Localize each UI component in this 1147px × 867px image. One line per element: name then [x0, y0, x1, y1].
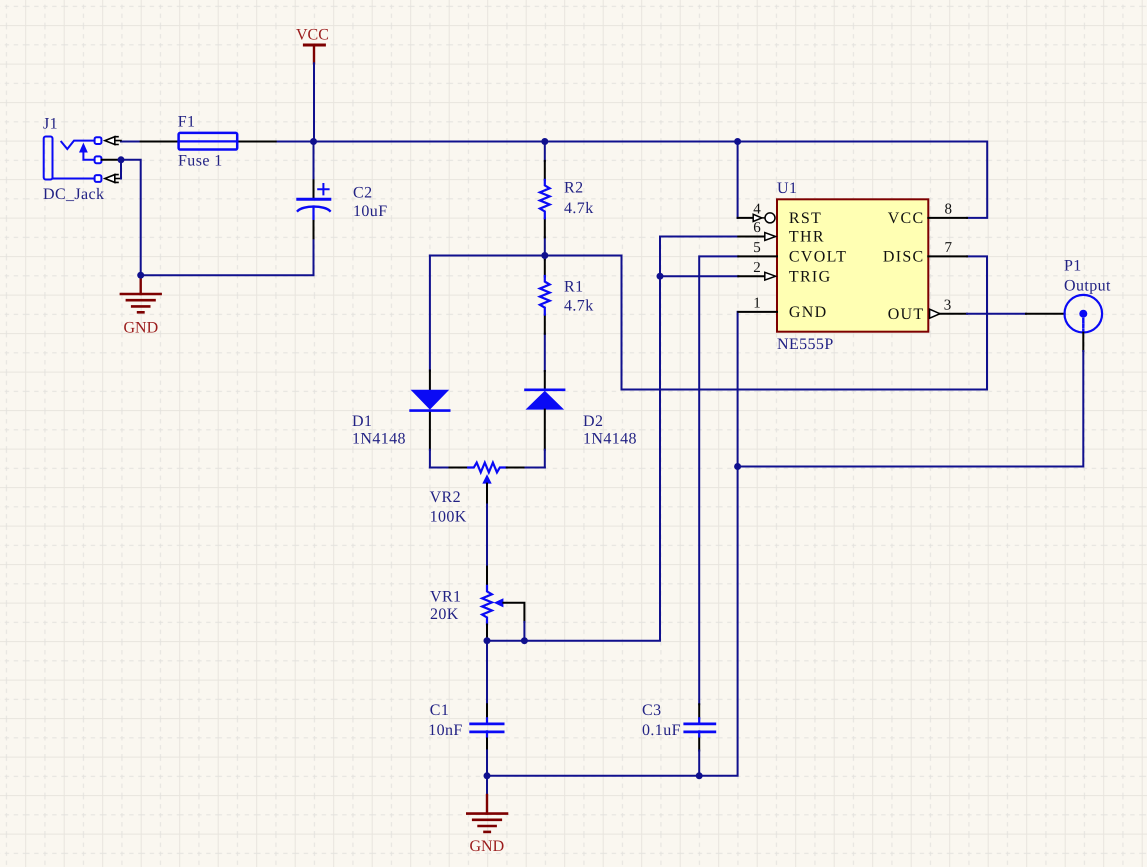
wire CVOLT branch to C3 [699, 256, 738, 704]
svg-text:F1: F1 [178, 114, 196, 131]
svg-text:10uF: 10uF [353, 203, 388, 220]
svg-text:3: 3 [944, 297, 952, 313]
resistor R2 4.7k [540, 142, 550, 256]
svg-text:Output: Output [1064, 278, 1111, 295]
svg-text:GND: GND [124, 320, 159, 337]
wire bottom GND rail [487, 312, 738, 776]
svg-text:6: 6 [753, 220, 761, 236]
svg-text:4: 4 [753, 202, 761, 218]
wire top rail VCC net [121, 142, 987, 218]
connector J1 DC_Jack [44, 137, 121, 183]
pin 3 OUT [930, 309, 967, 318]
svg-text:C3: C3 [642, 702, 661, 719]
svg-text:P1: P1 [1064, 258, 1082, 275]
svg-text:VCC: VCC [888, 210, 925, 227]
svg-text:1: 1 [753, 296, 761, 312]
fuse F1 [141, 133, 276, 150]
svg-text:D1: D1 [352, 413, 372, 430]
svg-text:J1: J1 [43, 116, 58, 133]
svg-text:DC_Jack: DC_Jack [43, 186, 104, 203]
wire OUT to P1 [967, 313, 1026, 315]
svg-text:4.7k: 4.7k [564, 200, 594, 217]
svg-text:RST: RST [789, 210, 822, 227]
wire P1 return to GND column [738, 351, 1084, 467]
capacitor C3 0.1uF [685, 704, 715, 776]
svg-text:DISC: DISC [883, 249, 925, 266]
pin 4 RST [753, 213, 775, 223]
svg-text:VR2: VR2 [430, 489, 461, 506]
power symbol VCC [304, 45, 324, 142]
svg-text:VCC: VCC [296, 27, 329, 44]
svg-text:OUT: OUT [888, 306, 925, 323]
wire RST to VCC rail [737, 142, 739, 218]
svg-text:0.1uF: 0.1uF [642, 722, 681, 739]
svg-text:1N4148: 1N4148 [583, 431, 637, 448]
svg-text:VR1: VR1 [430, 589, 461, 606]
svg-text:C2: C2 [353, 185, 372, 202]
svg-text:C1: C1 [430, 702, 449, 719]
wire J1 pin2/pin3 to GND rail [121, 160, 141, 275]
svg-text:5: 5 [753, 240, 761, 256]
svg-text:100K: 100K [430, 508, 467, 525]
svg-text:GND: GND [789, 304, 828, 321]
svg-text:R2: R2 [564, 180, 583, 197]
svg-text:R1: R1 [564, 278, 583, 295]
svg-text:GND: GND [470, 838, 505, 855]
svg-text:U1: U1 [777, 180, 797, 197]
svg-text:10nF: 10nF [428, 722, 463, 739]
pin 8 VCC [928, 217, 967, 219]
resistor R1 4.7k [540, 256, 550, 372]
pin 2 TRIG [738, 272, 775, 280]
wire GND rail C2 to J1 [141, 238, 314, 275]
pin 1 GND [738, 311, 777, 313]
potentiometer VR2 100K [430, 463, 545, 567]
capacitor C1 10nF [471, 641, 503, 776]
ground symbol GND left [121, 275, 161, 312]
pin 7 DISC [928, 255, 967, 257]
wire DISC loop [622, 256, 988, 390]
svg-text:D2: D2 [583, 413, 603, 430]
svg-text:20K: 20K [430, 606, 459, 623]
wire TRIG branch [660, 275, 738, 277]
svg-text:7: 7 [945, 240, 953, 256]
svg-text:THR: THR [789, 229, 825, 246]
svg-text:1N4148: 1N4148 [352, 431, 406, 448]
wire VR1 bottom row to THR/TRIG column [487, 237, 738, 641]
connector P1 Output [1026, 295, 1102, 351]
ground symbol GND bottom [467, 776, 507, 832]
potentiometer VR1 20K [482, 567, 524, 641]
wire node R1 R2 junction row [430, 255, 622, 257]
diode D2 1N4148 [526, 371, 565, 468]
pin 6 THR [738, 233, 775, 241]
svg-text:CVOLT: CVOLT [789, 249, 847, 266]
pin 5 CVOLT [738, 255, 777, 257]
svg-text:8: 8 [945, 202, 953, 218]
capacitor C2 polarized [298, 142, 330, 239]
svg-text:NE555P: NE555P [777, 336, 834, 353]
IC U1 NE555P body [777, 199, 928, 331]
svg-text:2: 2 [753, 260, 761, 276]
svg-text:4.7k: 4.7k [564, 298, 594, 315]
svg-text:Fuse 1: Fuse 1 [178, 153, 223, 170]
diode D1 1N4148 [411, 256, 450, 468]
svg-text:TRIG: TRIG [789, 268, 832, 285]
